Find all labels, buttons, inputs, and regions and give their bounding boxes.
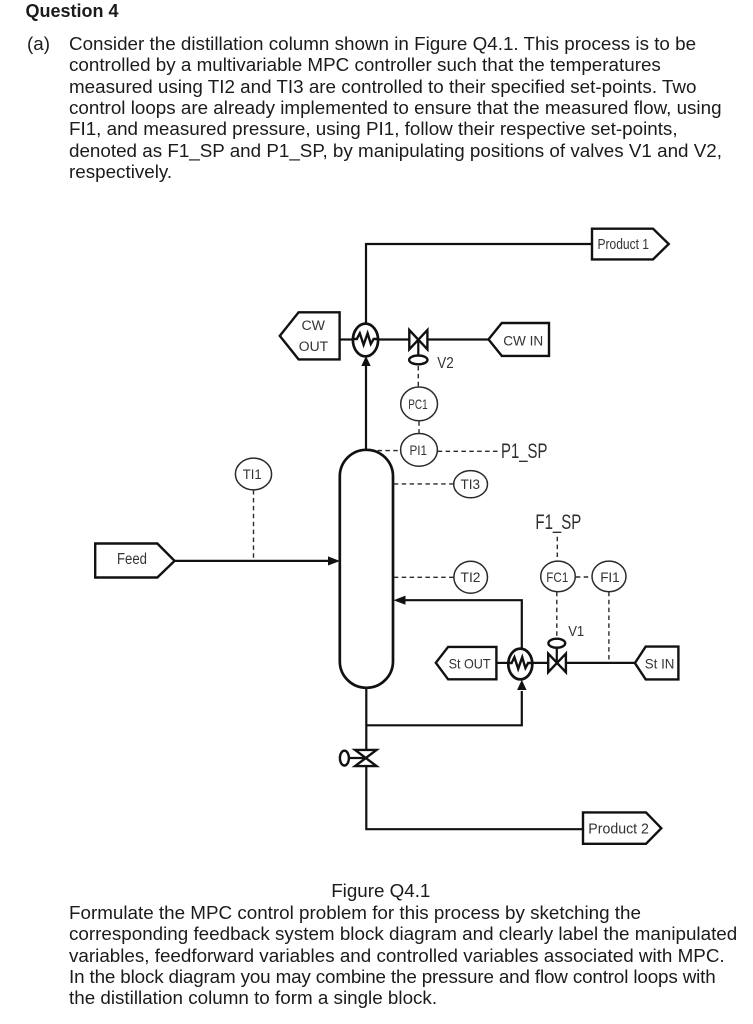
- svg-text:OUT: OUT: [299, 339, 328, 354]
- signal: TI1 to feed line: [253, 490, 255, 559]
- tag FC1: [546, 569, 568, 585]
- item label (a): [27, 33, 50, 54]
- svg-text:TI3: TI3: [461, 476, 481, 492]
- tag FI1: [600, 569, 620, 585]
- text CW IN: [503, 332, 543, 348]
- signal: column to TI2: [394, 576, 454, 578]
- arrowhead into condenser: [361, 356, 370, 366]
- closing paragraph: [69, 902, 737, 1008]
- signal: V2 actuator to PC1: [417, 366, 419, 386]
- flag Product 1: [592, 229, 669, 260]
- svg-text:Product 2: Product 2: [588, 821, 649, 837]
- signal: FC1 to V1 actuator: [556, 592, 558, 639]
- svg-text:PI1: PI1: [410, 442, 428, 458]
- tag TI1: [243, 466, 262, 482]
- svg-text:St IN: St IN: [645, 656, 675, 672]
- label P1_SP: [501, 440, 547, 463]
- wire: feed line: [175, 560, 330, 562]
- tag PC1: [408, 396, 428, 412]
- instrument PC1: [401, 387, 438, 421]
- arrowhead into reboiler: [517, 680, 526, 690]
- condenser heat exchanger: [353, 324, 378, 357]
- instrument TI1: [235, 458, 271, 490]
- wire: reboiler vapor return to column: [404, 600, 522, 649]
- bottom valve: [340, 750, 377, 766]
- svg-text:Feed: Feed: [117, 551, 147, 568]
- wire: valve V2 to CW IN: [427, 338, 488, 340]
- heading Question 4: [26, 1, 119, 22]
- flag texts: [117, 237, 674, 837]
- setpoint labels: [501, 440, 581, 534]
- signal: F1_SP to FC1: [556, 537, 558, 562]
- svg-text:V1: V1: [568, 624, 584, 640]
- flag St IN: [635, 647, 679, 680]
- flag Product 2: [583, 812, 661, 843]
- text St IN: [645, 656, 675, 672]
- arrowhead feed into column: [328, 556, 340, 565]
- svg-text:PC1: PC1: [408, 396, 428, 412]
- instrument FC1: [541, 561, 576, 592]
- arrowhead vapor return into column: [394, 596, 406, 605]
- instrument TI3: [454, 471, 488, 498]
- svg-text:FC1: FC1: [546, 569, 568, 585]
- svg-text:FI1: FI1: [600, 569, 620, 585]
- label V2: [437, 355, 454, 372]
- flag St OUT: [436, 647, 497, 679]
- dashed signal lines: [254, 366, 609, 662]
- svg-text:CW IN: CW IN: [503, 332, 543, 348]
- wire: bottom valve to Product 2: [366, 766, 583, 830]
- paragraph a: [69, 33, 722, 182]
- signal: FC1 to FI1: [576, 576, 592, 578]
- wire: top rail to Product 1: [366, 244, 592, 325]
- wire: St OUT to reboiler: [496, 662, 509, 664]
- wire: condenser to valve V2: [378, 338, 410, 340]
- signal: column to TI3: [394, 483, 454, 485]
- flag Feed: [95, 544, 174, 578]
- instrument tags text: [243, 396, 620, 585]
- svg-text:V2: V2: [437, 355, 454, 372]
- figure caption: [331, 880, 430, 901]
- label V1: [568, 624, 584, 640]
- tag TI2: [461, 569, 481, 585]
- tag TI3: [461, 476, 481, 492]
- label F1_SP: [535, 511, 581, 534]
- text Product 2: [588, 821, 649, 837]
- text Feed: [117, 551, 147, 568]
- flag CW OUT: [280, 312, 340, 359]
- instrument bubbles: [235, 387, 626, 593]
- signal: FI1 to steam line: [608, 592, 610, 662]
- wire: column bottom drop: [365, 687, 367, 751]
- wire: bottoms branch to reboiler: [366, 691, 522, 725]
- svg-text:F1_SP: F1_SP: [535, 511, 581, 534]
- valve V2: [409, 330, 427, 364]
- svg-text:P1_SP: P1_SP: [501, 440, 547, 463]
- valve V1: [548, 639, 566, 673]
- svg-text:TI1: TI1: [243, 466, 262, 482]
- wire: valve V1 to St IN: [566, 662, 636, 664]
- flag CW IN: [489, 323, 550, 356]
- text St OUT: [449, 656, 491, 672]
- wire: reboiler to valve V1: [532, 662, 549, 664]
- instrument PI1: [401, 434, 438, 467]
- signal: column to PI1: [378, 450, 401, 452]
- svg-text:Product 1: Product 1: [598, 237, 650, 253]
- distillation column: [340, 450, 393, 688]
- text Product 1: [598, 237, 650, 253]
- signal: PI1 to P1_SP: [438, 450, 498, 452]
- instrument TI2: [454, 561, 488, 593]
- text CW OUT: [299, 318, 328, 354]
- reboiler heat exchanger: [508, 649, 532, 680]
- flag labels: [95, 229, 678, 844]
- wire: column top riser to condenser: [365, 364, 367, 450]
- tag PI1: [410, 442, 428, 458]
- instrument FI1: [592, 561, 626, 592]
- svg-text:St OUT: St OUT: [449, 656, 491, 672]
- signal: PC1 to PI1: [418, 421, 420, 433]
- svg-text:TI2: TI2: [461, 569, 481, 585]
- wire: CW OUT to condenser: [340, 338, 354, 340]
- svg-text:CW: CW: [302, 318, 326, 333]
